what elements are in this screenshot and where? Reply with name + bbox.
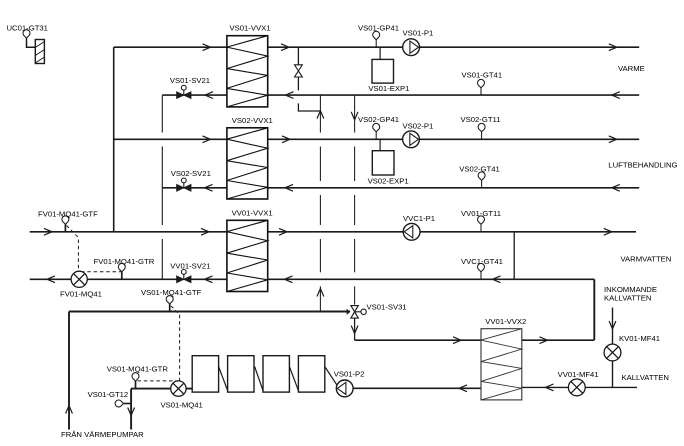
wire main supply riser: [113, 47, 115, 232]
arrow SV31 to VVX2: [453, 337, 461, 344]
arrow return riser up (lower): [317, 289, 324, 297]
wire riser x355: [354, 286, 356, 304]
signal VS01-MQ41 vertical (dashed): [171, 306, 180, 381]
svg-text:VS01-P2: VS01-P2: [334, 369, 365, 378]
svg-text:VVC1-P1: VVC1-P1: [403, 214, 435, 223]
svg-text:VV01-VVX2: VV01-VVX2: [485, 317, 526, 326]
tank 4 (accumulator): [298, 356, 324, 392]
sensor VS02-GT11: [478, 123, 485, 131]
arrow VARMVATTEN out: [604, 228, 612, 235]
meter KV01-MF41 (flow): [604, 344, 621, 361]
wire VVX2 out to riser x594: [522, 339, 595, 341]
valve VS01-SV31 (3-way): [347, 306, 367, 319]
svg-text:VS02-SV21: VS02-SV21: [171, 169, 211, 178]
wall symbol (hatched) for UC01-GT31: [35, 40, 44, 64]
signal FV01-MQ41 GTR link (dashed): [81, 271, 122, 273]
heat exchanger VS02-VVX1: [227, 128, 268, 199]
sensor VS01-GT12: [115, 400, 123, 407]
sensor VVC1-GT41: [478, 263, 485, 271]
sensor VS01-MQ41-GTR: [132, 373, 139, 381]
pump VVC1-P1: [403, 223, 420, 240]
wire VS01-EXP1 stem: [379, 47, 381, 59]
arrow VVX2 out: [540, 337, 548, 344]
sensor VS02-GT41: [478, 172, 485, 180]
wire VS01 supply (riser to VVX1): [114, 46, 227, 48]
svg-text:FV01-MQ41-GTF: FV01-MQ41-GTF: [38, 209, 98, 218]
wire riser x355: [354, 95, 356, 132]
svg-text:VS02-GP41: VS02-GP41: [358, 115, 399, 124]
svg-text:VARME: VARME: [618, 64, 645, 73]
wire riser x355: [354, 239, 356, 272]
wire riser x320: [319, 95, 321, 132]
wire bypass (below valve): [297, 77, 299, 90]
svg-text:FV01-MQ41-GTR: FV01-MQ41-GTR: [94, 257, 155, 266]
wire return collector (upper): [161, 95, 163, 132]
svg-text:VS02-VVX1: VS02-VVX1: [232, 116, 273, 125]
svg-text:VS02-GT11: VS02-GT11: [461, 115, 501, 124]
wire riser x355 below valve: [354, 318, 356, 340]
arrow below VS01-SV31: [351, 326, 358, 334]
wire bypass to return riser: [298, 103, 320, 111]
heat exchanger VS01-VVX1: [227, 36, 268, 107]
meter FV01-MQ41 (flow): [71, 271, 87, 287]
svg-text:VS01-MQ41-GTF: VS01-MQ41-GTF: [141, 288, 202, 297]
sensor VV01-GT11: [478, 216, 485, 224]
wire return collector (middle): [161, 147, 163, 226]
wire tank return line: [131, 388, 192, 390]
arrow VS01 supply 2: [281, 44, 289, 51]
wire VS01-P2 to VVX2: [353, 387, 481, 389]
arrow KALLVATTEN into VVX2: [546, 384, 554, 391]
wire to heat pumps (down): [130, 389, 132, 430]
arrow VS01 return 2: [612, 92, 620, 99]
svg-text:VS01-MQ41: VS01-MQ41: [161, 401, 203, 410]
sensor FV01-MQ41-GTR: [118, 263, 125, 271]
valve VV01-SV21 (3-way): [177, 270, 191, 283]
arrow VV return into VVX1: [285, 276, 293, 283]
wire bypass down from supply: [297, 47, 299, 64]
svg-text:VS01-SV21: VS01-SV21: [170, 76, 210, 85]
valve VS02-SV21 (3-way): [177, 178, 191, 191]
arrow VS02 return 2: [285, 184, 293, 191]
arrow VS01 supply: [203, 44, 211, 51]
arrow supply-to-SV31 riser down: [351, 112, 358, 120]
arrow VS01 return 3: [205, 92, 213, 99]
svg-text:KALLVATTEN: KALLVATTEN: [604, 294, 651, 303]
valve VS01-SV21 (3-way): [177, 85, 191, 98]
arrow VS02 supply 2: [282, 136, 290, 143]
wire incoming cold water: [612, 308, 614, 388]
wire heat pump supply: [69, 311, 350, 313]
wire riser x355: [354, 195, 356, 225]
svg-text:VS01-GT12: VS01-GT12: [88, 390, 129, 399]
wire VS01 return (collector to VVX1): [162, 94, 227, 96]
arrow VV supply out of VVX1: [279, 228, 287, 235]
arrow incoming cold water: [609, 321, 616, 329]
arrow VV return mid: [493, 276, 501, 283]
expansion vessel VS02-EXP1: [372, 151, 394, 175]
svg-text:VS01-GP41: VS01-GP41: [358, 23, 399, 32]
wire tank link 3: [289, 367, 298, 391]
valve (manual, bypass): [295, 65, 303, 77]
signal VS01-MQ41 GTR link (dashed): [138, 380, 180, 382]
arrow bypass riser up: [317, 111, 324, 119]
sensor VS02-GP41: [373, 123, 380, 131]
sensor UC01-GT31 (outdoor temp): [23, 30, 30, 38]
arrow VV supply left: [44, 228, 52, 235]
wire VS01-GT12 stem: [124, 403, 132, 405]
svg-text:KV01-MF41: KV01-MF41: [619, 334, 660, 343]
svg-text:VV01-VVX1: VV01-VVX1: [232, 209, 273, 218]
wire riser x320: [319, 195, 321, 225]
svg-text:VS01-VVX1: VS01-VVX1: [230, 23, 271, 32]
wire UC01-GT31 stem: [27, 38, 36, 47]
wire SV31 to VVX2: [355, 339, 481, 341]
heat exchanger VV01-VVX2: [481, 329, 522, 400]
svg-text:VS01-SV31: VS01-SV31: [367, 302, 407, 311]
pump VS01-P1: [403, 39, 420, 56]
sensor VS01-MQ41-GTF: [166, 296, 173, 304]
arrow VS01 return: [286, 92, 294, 99]
wire VS02 return (right): [268, 187, 640, 189]
wire riser x320: [319, 147, 321, 182]
arrow from heat pumps: [66, 406, 73, 414]
svg-text:FRÅN VÄRMEPUMPAR: FRÅN VÄRMEPUMPAR: [61, 430, 144, 439]
tank 1 (accumulator): [192, 356, 218, 392]
meter VV01-MF41 (flow): [568, 379, 585, 396]
arrow VS02 supply: [203, 136, 211, 143]
wire VV01 return (right): [268, 278, 595, 280]
arrow VV supply into VVX1: [201, 228, 209, 235]
svg-text:FV01-MQ41: FV01-MQ41: [60, 289, 102, 298]
wire VS01 supply (VVX1 to VARME): [268, 46, 640, 48]
svg-text:VS01-P1: VS01-P1: [403, 28, 434, 37]
svg-text:VVC1-GT41: VVC1-GT41: [461, 257, 503, 266]
sensor FV01-MQ41-GTF: [62, 216, 69, 224]
pump VS01-P2: [336, 380, 353, 397]
svg-text:VS02-GT41: VS02-GT41: [459, 164, 500, 173]
svg-text:VS01-GT41: VS01-GT41: [462, 71, 503, 80]
wire tank link 2: [255, 367, 263, 391]
wire return collector (lower): [161, 239, 163, 279]
arrow to heat pumps: [128, 408, 135, 416]
arrow VS01 supply 3: [609, 44, 617, 51]
svg-text:VARMVATTEN: VARMVATTEN: [621, 255, 672, 264]
arrow VV return at valve: [205, 276, 213, 283]
svg-text:LUFTBEHANDLING: LUFTBEHANDLING: [608, 161, 677, 170]
tank 3 (accumulator): [263, 356, 289, 392]
arrow VS02 return 3: [612, 184, 620, 191]
wire VV01 return (left): [30, 278, 227, 280]
wire tank link 1: [219, 367, 228, 391]
wire riser x355: [354, 147, 356, 182]
sensor VS01-GT41: [478, 79, 485, 87]
arrow VS02 return: [205, 184, 213, 191]
meter VS01-MQ41 (flow): [171, 381, 186, 396]
wire tank 4 to pump: [325, 367, 338, 387]
signal FV01-MQ41 GTF link (dashed): [67, 226, 79, 272]
wire riser x320: [319, 286, 321, 311]
sensor VS01-GP41: [373, 31, 380, 39]
wire VS02 return (collector to VVX1): [162, 187, 227, 189]
tank 2 (accumulator): [228, 356, 254, 392]
svg-text:VV01-GT11: VV01-GT11: [461, 209, 501, 218]
wire VS01 return (right): [268, 94, 640, 96]
arrow into VS01-P2 line: [459, 385, 467, 392]
svg-text:VS02-P1: VS02-P1: [403, 121, 434, 130]
wire VVC junction vertical: [513, 232, 515, 279]
wire VS02 supply (right): [268, 138, 640, 140]
svg-text:VS01-EXP1: VS01-EXP1: [368, 84, 409, 93]
arrow VV return left: [47, 276, 55, 283]
arrow VS02 supply 3: [609, 136, 617, 143]
heat exchanger VV01-VVX1: [227, 220, 268, 291]
expansion vessel VS01-EXP1: [372, 59, 394, 83]
wire preheat riser x594: [593, 279, 595, 340]
svg-text:VV01-MF41: VV01-MF41: [558, 370, 599, 379]
wire VV01 supply (right): [268, 231, 636, 233]
svg-text:KALLVATTEN: KALLVATTEN: [622, 373, 669, 382]
wire VS02-EXP1 stem: [379, 139, 381, 150]
pump VS02-P1: [403, 131, 420, 148]
wire riser x320: [319, 239, 321, 272]
wire from heat pumps (up): [68, 312, 70, 430]
svg-text:VV01-SV21: VV01-SV21: [170, 261, 210, 270]
svg-text:VS02-EXP1: VS02-EXP1: [368, 176, 409, 185]
wire VV01 supply (left): [30, 231, 227, 233]
wire KALLVATTEN: [522, 386, 637, 388]
svg-text:VS01-MQ41-GTR: VS01-MQ41-GTR: [107, 364, 169, 373]
wire VS02 supply (riser to VVX1): [114, 138, 227, 140]
